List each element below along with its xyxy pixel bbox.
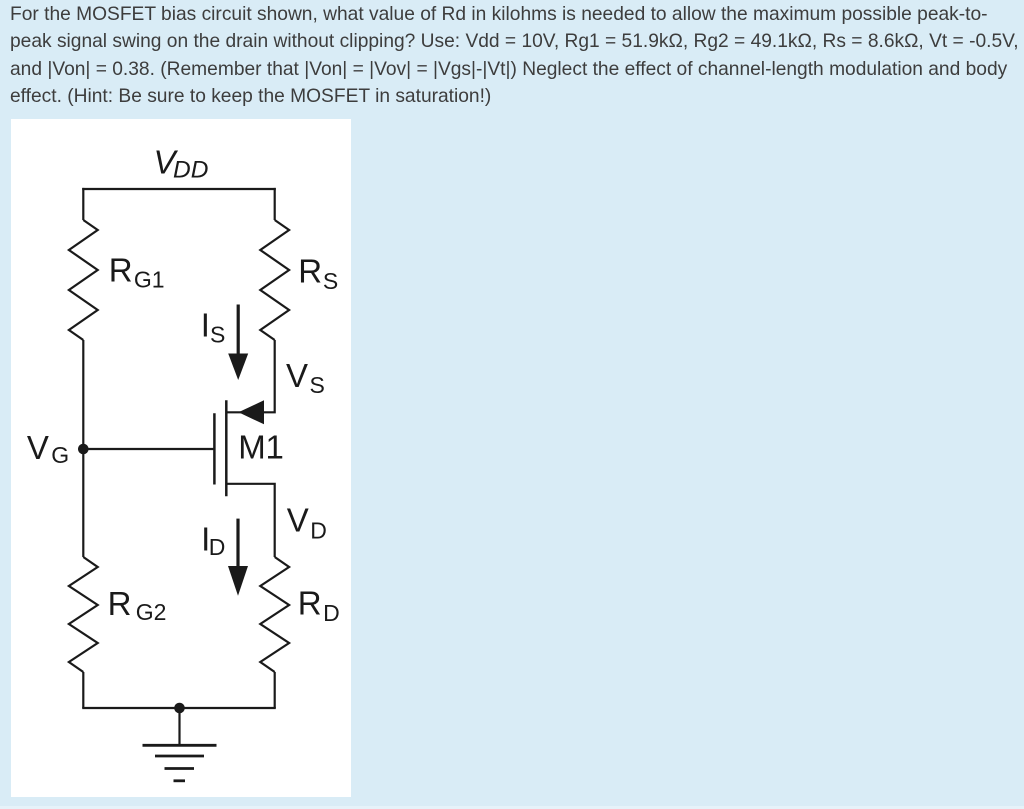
svg-text:R: R bbox=[298, 585, 322, 622]
label VDD bbox=[154, 143, 209, 183]
bottom lighter strip bbox=[0, 806, 1024, 809]
svg-text:D: D bbox=[310, 518, 327, 544]
resistor RG1 bbox=[69, 220, 98, 340]
transistor M1 gate plate bbox=[213, 413, 216, 484]
ground stem wire bbox=[178, 708, 180, 745]
label VS bbox=[286, 357, 325, 398]
label Is bbox=[201, 306, 226, 347]
svg-text:S: S bbox=[310, 372, 325, 398]
svg-text:I: I bbox=[201, 306, 210, 343]
svg-text:1: 1 bbox=[266, 429, 284, 466]
wire bottom ground rail bbox=[82, 707, 276, 709]
current arrow Is bbox=[228, 305, 248, 381]
svg-text:S: S bbox=[210, 322, 225, 348]
ground junction node dot bbox=[174, 703, 185, 714]
svg-text:G: G bbox=[51, 442, 69, 468]
wire VDD rail to RS top bbox=[274, 188, 276, 220]
resistor RS bbox=[260, 220, 289, 340]
svg-text:V: V bbox=[27, 429, 49, 466]
wire VDD top rail bbox=[82, 188, 276, 190]
wire RG1 bottom to RG2 top (through node VG) bbox=[82, 340, 84, 557]
label VG bbox=[27, 429, 69, 468]
resistor RD bbox=[260, 557, 289, 672]
svg-text:G2: G2 bbox=[136, 599, 167, 625]
wire RD bottom to ground rail bbox=[274, 672, 276, 708]
transistor M1 channel plate bbox=[225, 400, 228, 496]
svg-text:V: V bbox=[286, 357, 308, 394]
ground symbol bars bbox=[143, 745, 217, 781]
label RS bbox=[298, 252, 338, 294]
node VG junction dot bbox=[78, 444, 89, 455]
wire VDD rail to RG1 top bbox=[82, 188, 84, 220]
label RG2 bbox=[108, 585, 167, 625]
problem statement text bbox=[10, 1, 1024, 111]
wire gate (node VG to gate plate) bbox=[83, 448, 214, 450]
label RD bbox=[298, 585, 340, 627]
label M1 bbox=[238, 429, 284, 466]
wire RS bottom to source bbox=[226, 340, 274, 412]
svg-text:R: R bbox=[109, 252, 133, 289]
svg-text:S: S bbox=[323, 268, 338, 294]
svg-text:V: V bbox=[287, 502, 309, 539]
svg-text:M: M bbox=[238, 429, 265, 466]
label VD bbox=[287, 502, 327, 544]
svg-text:R: R bbox=[108, 585, 132, 622]
svg-text:R: R bbox=[298, 252, 322, 289]
label RG1 bbox=[109, 252, 165, 293]
current arrow Id bbox=[228, 519, 248, 596]
schematic white panel bbox=[11, 119, 351, 797]
resistor RG2 bbox=[69, 557, 98, 672]
svg-text:D: D bbox=[323, 600, 340, 626]
svg-text:G1: G1 bbox=[134, 267, 165, 293]
transistor M1 source arrow (PMOS, pointing into channel) bbox=[239, 400, 265, 424]
wire drain to RD top bbox=[226, 484, 274, 557]
svg-text:D: D bbox=[209, 534, 226, 560]
wire RG2 bottom to ground rail bbox=[82, 672, 84, 708]
svg-text:DD: DD bbox=[173, 157, 208, 184]
label Id bbox=[201, 521, 225, 560]
